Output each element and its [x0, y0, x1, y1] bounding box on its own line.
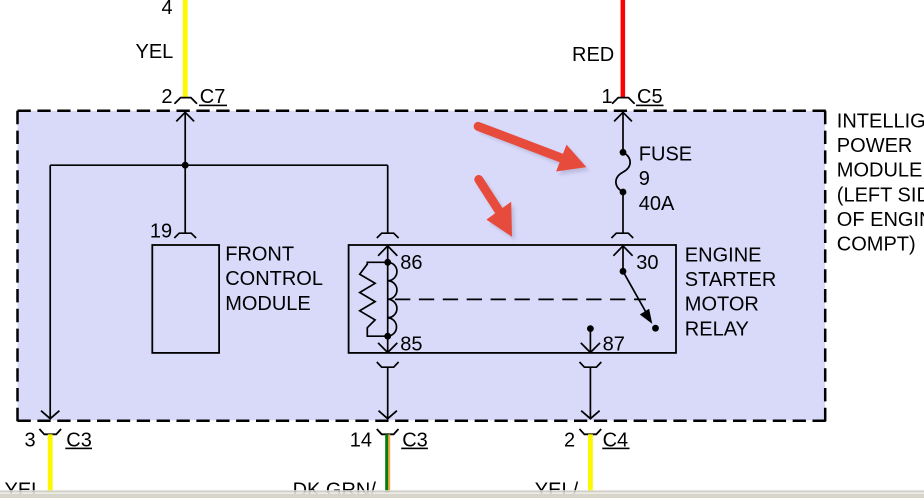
svg-text:30: 30 [636, 252, 658, 274]
svg-text:2: 2 [161, 86, 172, 108]
svg-text:ENGINE: ENGINE [685, 244, 762, 266]
svg-text:87: 87 [603, 333, 625, 355]
svg-text:86: 86 [400, 252, 422, 274]
svg-text:MOTOR: MOTOR [685, 294, 759, 316]
svg-text:4: 4 [162, 0, 173, 19]
svg-text:9: 9 [639, 168, 650, 190]
svg-text:85: 85 [400, 333, 422, 355]
svg-text:COMPT): COMPT) [837, 234, 916, 256]
svg-text:YEL: YEL [136, 41, 174, 63]
svg-text:INTELLIGENT: INTELLIGENT [837, 111, 924, 133]
svg-text:C5: C5 [637, 86, 663, 108]
svg-text:19: 19 [150, 221, 172, 243]
svg-text:14: 14 [350, 429, 372, 451]
svg-text:RELAY: RELAY [685, 318, 749, 340]
svg-text:FRONT: FRONT [225, 243, 294, 265]
svg-text:FUSE: FUSE [639, 144, 692, 166]
svg-text:CONTROL: CONTROL [225, 268, 323, 290]
svg-text:C7: C7 [200, 86, 226, 108]
svg-text:40A: 40A [639, 193, 675, 215]
svg-text:RED: RED [572, 44, 614, 66]
svg-text:(LEFT SIDE: (LEFT SIDE [837, 184, 924, 206]
svg-text:OF ENGINE: OF ENGINE [837, 209, 924, 231]
svg-text:POWER: POWER [837, 135, 913, 157]
svg-text:MODULE: MODULE [225, 293, 311, 315]
svg-text:1: 1 [602, 86, 613, 108]
svg-text:2: 2 [564, 429, 575, 451]
svg-text:MODULE: MODULE [837, 160, 923, 182]
svg-text:STARTER: STARTER [685, 269, 777, 291]
svg-text:3: 3 [25, 429, 36, 451]
